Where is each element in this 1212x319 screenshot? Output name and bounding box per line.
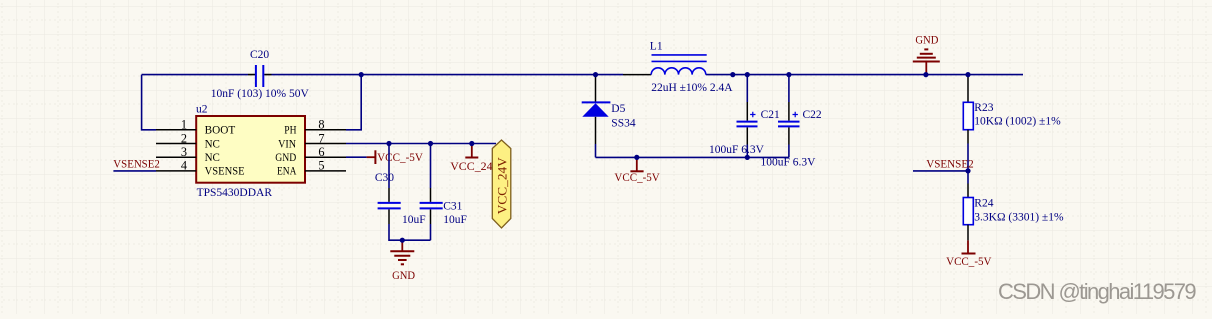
wire R23 to VSENSE2 node <box>967 144 969 184</box>
wire C31 bottom <box>430 224 432 240</box>
svg-text:10uF: 10uF <box>443 214 467 226</box>
wire pin 6 stub <box>346 156 367 158</box>
node C22 top junction <box>786 72 791 77</box>
svg-text:GND: GND <box>392 268 415 282</box>
svg-text:1: 1 <box>181 118 187 132</box>
net label VSENSE2 left <box>113 157 160 171</box>
svg-text:6: 6 <box>318 145 324 159</box>
node rail junction A <box>730 72 735 77</box>
wire left vertical to pin 1 <box>142 75 156 130</box>
wire VSENSE2 right <box>913 170 968 172</box>
capacitor C31 <box>420 188 467 226</box>
wire VSENSE2 left <box>113 170 156 172</box>
svg-text:VCC_-5V: VCC_-5V <box>377 150 423 164</box>
svg-text:5: 5 <box>318 159 324 173</box>
pin 2 NC <box>156 131 220 150</box>
port VCC_24V <box>492 140 511 228</box>
capacitor C30 <box>375 172 426 226</box>
svg-text:10KΩ (1002) ±1%: 10KΩ (1002) ±1% <box>974 116 1061 128</box>
svg-text:VSENSE2: VSENSE2 <box>113 157 160 171</box>
svg-text:C31: C31 <box>443 201 462 213</box>
wire C30 bottom <box>389 224 431 240</box>
ground GND top <box>913 33 940 75</box>
svg-text:VIN: VIN <box>278 138 297 150</box>
svg-text:8: 8 <box>318 118 324 132</box>
inductor L1 <box>623 41 733 94</box>
svg-text:PH: PH <box>284 125 296 137</box>
svg-text:R24: R24 <box>974 198 993 210</box>
wire top rail C20 to L1 <box>272 74 624 76</box>
svg-text:100uF 6.3V: 100uF 6.3V <box>761 157 817 169</box>
svg-text:ENA: ENA <box>277 166 297 178</box>
wire diode to bottom rail <box>595 144 597 157</box>
svg-text:VCC_24V: VCC_24V <box>496 157 510 214</box>
svg-text:C22: C22 <box>803 109 822 121</box>
diode D5 <box>582 75 636 144</box>
power VCC_-5V bottom right <box>946 240 992 268</box>
power VCC_-5V at pin 6 <box>367 150 424 164</box>
svg-text:22uH ±10% 2.4A: 22uH ±10% 2.4A <box>651 82 733 94</box>
resistor R24 <box>963 184 1064 241</box>
pin 1 BOOT <box>156 118 235 137</box>
svg-text:100uF 6.3V: 100uF 6.3V <box>709 144 765 156</box>
pin 3 NC <box>156 145 220 164</box>
node C31 top junction <box>428 141 433 146</box>
pin 5 ENA <box>277 159 346 178</box>
node R23 top junction <box>965 72 970 77</box>
ground GND bottom <box>390 240 415 282</box>
node C30 top junction <box>386 141 391 146</box>
node C21 top junction <box>745 72 750 77</box>
wire VIN rail (pin 7 to port) <box>346 143 496 145</box>
svg-text:VCC_-5V: VCC_-5V <box>614 170 660 184</box>
node diode junction <box>593 72 598 77</box>
svg-text:2: 2 <box>181 131 187 145</box>
node VCC_-5V tap junction <box>634 155 639 160</box>
svg-text:SS34: SS34 <box>611 117 636 129</box>
svg-text:NC: NC <box>205 152 221 164</box>
resistor R23 <box>963 75 1061 144</box>
wire top rail L1 to right end <box>706 74 1023 76</box>
op-amp U1 : IC u2 TPS5430DDAR body <box>196 104 305 200</box>
wire top rail left segment (BOOT to C20) <box>142 74 248 76</box>
svg-text:D5: D5 <box>611 103 625 115</box>
node GND junction <box>923 72 928 77</box>
svg-text:GND: GND <box>275 152 296 164</box>
node GND bottom junction <box>400 238 405 243</box>
svg-text:10uF: 10uF <box>402 214 426 226</box>
capacitor C21 <box>709 75 780 158</box>
capacitor C20 <box>211 49 310 100</box>
svg-text:7: 7 <box>318 131 324 145</box>
svg-text:TPS5430DDAR: TPS5430DDAR <box>197 187 273 199</box>
svg-text:R23: R23 <box>974 102 993 114</box>
svg-text:VCC_-5V: VCC_-5V <box>946 254 992 268</box>
pin 6 GND <box>275 145 346 164</box>
wire C31 branch vertical <box>430 144 432 189</box>
pin 7 VIN <box>278 131 346 150</box>
wire bottom rail <box>596 156 789 158</box>
wire C30 branch vertical <box>388 144 390 189</box>
svg-text:u2: u2 <box>196 104 208 116</box>
svg-text:GND: GND <box>915 33 938 47</box>
wire vertical to pin 8 <box>346 75 361 130</box>
svg-text:VSENSE2: VSENSE2 <box>926 157 974 171</box>
svg-text:3.3KΩ (3301) ±1%: 3.3KΩ (3301) ±1% <box>974 212 1064 224</box>
pin 4 VSENSE <box>156 159 245 178</box>
power VCC_24V bar <box>450 144 501 174</box>
svg-text:VSENSE: VSENSE <box>205 166 245 178</box>
node C21 bottom junction <box>745 155 750 160</box>
svg-text:C30: C30 <box>375 172 394 184</box>
svg-text:C20: C20 <box>250 49 269 61</box>
svg-text:10nF (103) 10% 50V: 10nF (103) 10% 50V <box>211 88 310 100</box>
svg-text:NC: NC <box>205 138 221 150</box>
node VSENSE2 junction <box>965 168 970 173</box>
svg-text:C21: C21 <box>761 109 780 121</box>
pin 8 PH <box>284 118 346 137</box>
node VCC_24V tap junction <box>469 141 474 146</box>
svg-text:3: 3 <box>181 145 187 159</box>
node pin8 junction <box>359 72 364 77</box>
svg-text:BOOT: BOOT <box>205 125 236 137</box>
svg-text:4: 4 <box>181 159 187 173</box>
power VCC_-5V mid bottom <box>614 157 660 184</box>
svg-text:CSDN @tinghai119579: CSDN @tinghai119579 <box>998 279 1196 304</box>
capacitor C22 <box>761 75 822 169</box>
svg-text:L1: L1 <box>650 41 663 53</box>
